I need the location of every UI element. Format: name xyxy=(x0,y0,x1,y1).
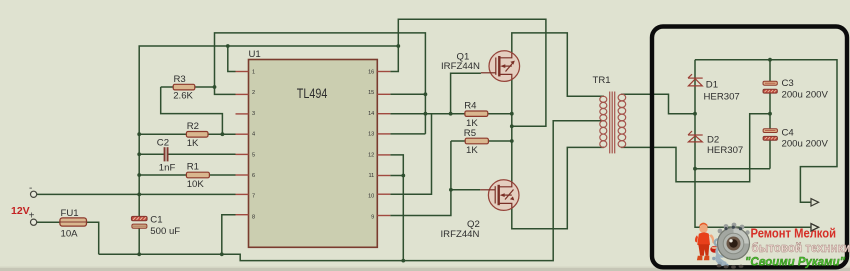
junction C3-C4 midpoint xyxy=(768,112,772,116)
svg-text:C1: C1 xyxy=(150,215,162,226)
wire: pin 11 link xyxy=(390,175,403,177)
junction box top rail / C3 xyxy=(768,58,772,62)
svg-text:4: 4 xyxy=(252,132,255,138)
capacitor C4 xyxy=(763,129,777,141)
junction pin12 drop / bottom rail xyxy=(401,259,405,263)
wire: D1-D2 column down to minus output arrow xyxy=(695,60,811,228)
wire: pin 12 down to bottom rail xyxy=(390,155,403,261)
junction net A-C / pin16 xyxy=(396,44,400,48)
resistor R4 xyxy=(465,111,488,116)
junction left rail / R2 xyxy=(137,132,141,136)
junction left rail / R1 xyxy=(137,173,141,177)
wire: R3 left loop down to R2/pin4 row xyxy=(161,87,223,134)
wire: R3 row xyxy=(161,86,215,88)
svg-text:R2: R2 xyxy=(187,121,199,132)
svg-text:IRFZ44N: IRFZ44N xyxy=(441,61,480,72)
wire: pin 8 down to bottom rail xyxy=(222,215,236,255)
op-amp U1 TL494 body xyxy=(249,60,378,248)
wire: secondary bottom to C3/C4 midpoint xyxy=(621,114,770,182)
washing machine drum emblem xyxy=(712,223,750,269)
wire: C1 bottom lead to bottom rail xyxy=(138,228,140,254)
svg-text:16: 16 xyxy=(368,70,374,76)
junction centre rail / R5 xyxy=(510,139,514,143)
svg-text:TR1: TR1 xyxy=(593,75,611,86)
resistor R2 xyxy=(186,132,208,138)
wire: R4 right lead to centre rail xyxy=(488,113,512,115)
wire: pin 16 up, net A across, down to centre rail xyxy=(390,19,546,126)
capacitor C2 xyxy=(164,147,169,161)
svg-text:1K: 1K xyxy=(187,138,199,149)
wire: D2 anode across to C4 bottom xyxy=(695,168,770,170)
capacitor C1 xyxy=(131,216,147,228)
junction net B vertical / R4 row xyxy=(424,112,428,116)
wire: box top rail and zigzag to plus output arrow xyxy=(695,60,837,203)
junction R3 right node xyxy=(213,85,217,89)
wire: bottom rail with jog, to transformer centre tap xyxy=(99,121,604,261)
svg-text:C3: C3 xyxy=(782,78,794,89)
node: minus output arrow xyxy=(811,224,819,231)
transformer TR1 xyxy=(600,92,626,154)
wire: Q1 gate wire and drop to R4 row xyxy=(451,73,481,114)
transistor Q2 IRFZ44N xyxy=(480,180,519,211)
svg-text:HER307: HER307 xyxy=(704,92,740,103)
wire: R5 left lead xyxy=(451,140,465,142)
svg-text:1K: 1K xyxy=(466,145,478,156)
junction centre rail / R4 xyxy=(510,112,514,116)
junction left rail / minus wire xyxy=(137,193,141,197)
node: battery plus terminal xyxy=(30,219,36,225)
wire: left rail to C2 left plate xyxy=(139,153,164,155)
mascot figure xyxy=(695,223,719,261)
svg-text:14: 14 xyxy=(368,111,374,117)
wire: battery plus through FU1 row down to bottom rail xyxy=(37,222,99,254)
svg-text:2: 2 xyxy=(252,90,255,96)
svg-text:R3: R3 xyxy=(174,74,186,85)
wire: Q1 drain up and over to primary top xyxy=(512,33,604,96)
wire: Q2 gate wire xyxy=(451,189,480,191)
wire: pin 9 up to R5 node xyxy=(390,141,451,216)
U1 left pin stubs 1-8 xyxy=(236,72,249,215)
wire: Q2 source down and over to primary bottom xyxy=(512,147,604,228)
junction D2 anode node xyxy=(693,167,697,171)
svg-text:15: 15 xyxy=(368,90,374,96)
U1 right pin stubs 16-9 xyxy=(377,72,390,216)
wire: pin 14 row to R4 xyxy=(390,113,465,115)
svg-text:R4: R4 xyxy=(464,101,477,112)
junction pin8 drop / bottom rail xyxy=(220,252,224,256)
fuse FU1 xyxy=(60,218,87,226)
svg-text:3: 3 xyxy=(252,111,255,117)
U1 pin numbers left xyxy=(252,70,255,221)
junction Q1 gate drop / R4 row xyxy=(449,112,453,116)
svg-text:13: 13 xyxy=(368,132,374,138)
wire: battery minus to pin 7 xyxy=(37,193,236,195)
diode D2 HER307 xyxy=(688,131,703,142)
wire: C4 bottom lead xyxy=(769,139,771,169)
svg-text:2.6K: 2.6K xyxy=(173,91,193,102)
wire: C3 bottom to C4 top (midpoint) xyxy=(769,93,771,128)
svg-text:1: 1 xyxy=(252,70,255,76)
svg-text:U1: U1 xyxy=(249,49,261,60)
wire: R1 row from left rail to pin 6 xyxy=(139,174,235,176)
svg-text:C2: C2 xyxy=(157,138,169,149)
wire: C2 right plate to pin 5 xyxy=(168,153,236,155)
junction net B vertical / pin15 xyxy=(424,92,428,96)
junction C1 bottom / bottom rail xyxy=(137,252,141,256)
node: battery minus terminal xyxy=(30,191,36,197)
junction pin12 drop / pin11 xyxy=(401,174,405,178)
svg-text:5: 5 xyxy=(252,152,255,158)
svg-text:"Своими Руками": "Своими Руками" xyxy=(745,255,845,269)
junction D1-D2 node / secondary top xyxy=(693,112,697,116)
node: minus output arrow (over watermark) xyxy=(811,224,819,231)
resistor R5 xyxy=(465,138,488,144)
wire: pin 15 stub link xyxy=(390,93,425,95)
svg-text:D1: D1 xyxy=(706,80,718,91)
svg-text:200u 200V: 200u 200V xyxy=(782,90,829,101)
wire: net B from pin-13/15 vertical up and across to R3 node xyxy=(215,33,426,134)
svg-text:7: 7 xyxy=(252,194,255,200)
svg-text:+: + xyxy=(29,211,35,222)
wire: secondary top jog to D column xyxy=(621,94,695,114)
svg-text:200u 200V: 200u 200V xyxy=(782,139,829,150)
svg-text:10: 10 xyxy=(368,194,374,200)
capacitor C3 xyxy=(763,81,777,93)
svg-text:500 uF: 500 uF xyxy=(150,226,180,237)
svg-text:6: 6 xyxy=(252,173,255,179)
junction centre rail / net A link xyxy=(510,124,514,128)
junction left rail / C2 xyxy=(137,152,141,156)
wire: C3 top lead xyxy=(769,60,771,81)
U1 pin numbers right xyxy=(368,70,374,221)
svg-text:8: 8 xyxy=(252,214,255,220)
svg-text:10A: 10A xyxy=(61,229,79,240)
transistor Q1 IRFZ44N xyxy=(481,51,520,82)
watermark logo xyxy=(695,223,850,269)
wire: pin 1 link from net C xyxy=(228,46,236,72)
wire: centre rail between Q1 source and Q2 drain xyxy=(511,79,513,181)
svg-text:1nF: 1nF xyxy=(159,163,176,174)
svg-text:R5: R5 xyxy=(464,128,476,139)
svg-text:FU1: FU1 xyxy=(61,208,79,219)
svg-text:C4: C4 xyxy=(782,127,795,138)
resistor R1 xyxy=(186,172,209,178)
wire: R5 right lead to centre rail xyxy=(488,140,511,142)
svg-text:10K: 10K xyxy=(187,179,205,190)
svg-text:-: - xyxy=(29,183,32,194)
diode D1 HER307 xyxy=(688,74,703,86)
black highlight box around output section xyxy=(652,27,847,268)
svg-text:12: 12 xyxy=(368,152,374,158)
wire: pin 13 link xyxy=(390,133,425,135)
junction pin9 rise / Q2 gate xyxy=(449,188,453,192)
svg-text:HER307: HER307 xyxy=(707,145,743,156)
junction pin1 link / net C xyxy=(226,44,230,48)
junction R3 loop / R2 row xyxy=(221,132,225,136)
svg-text:R1: R1 xyxy=(187,162,199,173)
svg-text:9: 9 xyxy=(371,214,374,220)
wire: top net C from pin-16 vertical to left rail, down left rail to C1 top xyxy=(139,46,398,216)
resistor R3 xyxy=(173,84,195,90)
svg-text:TL494: TL494 xyxy=(297,86,328,101)
node: plus output arrow xyxy=(811,199,819,206)
svg-text:Ремонт Мелкой: Ремонт Мелкой xyxy=(751,227,837,241)
svg-text:11: 11 xyxy=(368,173,374,179)
svg-text:IRFZ44N: IRFZ44N xyxy=(441,229,480,240)
svg-text:бытовой техники: бытовой техники xyxy=(752,240,850,255)
svg-text:12V: 12V xyxy=(11,205,30,217)
wire: pin 10 up to R4 row xyxy=(390,114,431,195)
wire: R2 row from left rail to pin 4 xyxy=(139,133,235,135)
